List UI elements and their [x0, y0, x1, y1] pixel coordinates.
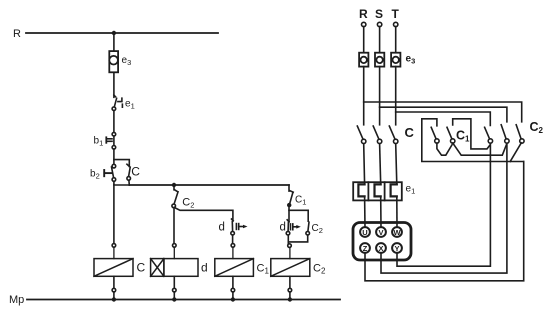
- svg-text:X: X: [378, 244, 383, 253]
- coil d (time relay): [151, 247, 208, 276]
- coil C: [94, 247, 146, 276]
- svg-text:C: C: [131, 165, 140, 179]
- contact C1 column D: [289, 185, 306, 207]
- wire: [113, 33, 115, 51]
- wire to parallel branch: [289, 205, 308, 222]
- contact C1 #2: [447, 119, 506, 155]
- svg-text:Mp: Mp: [9, 294, 24, 306]
- wire below coil C1: [231, 276, 235, 299]
- terminal above coil C: [112, 244, 116, 248]
- node junction long wire: [172, 183, 176, 187]
- svg-text:R: R: [13, 28, 21, 40]
- svg-text:U: U: [362, 228, 367, 237]
- coil C1: [215, 247, 270, 276]
- contact C2 column B: [172, 185, 195, 210]
- node on Mp rail: [231, 297, 235, 301]
- wire rejoin branch: [288, 235, 307, 242]
- node on Mp rail: [112, 297, 116, 301]
- wire loop Z to delta bus: [365, 162, 524, 281]
- motor terminal block: [353, 223, 411, 261]
- wire loop Y to C1 contact: [397, 143, 490, 266]
- contact C2 right branch: [306, 222, 323, 235]
- contactor C2 contact 1: [501, 125, 509, 143]
- svg-text:C: C: [405, 125, 415, 140]
- terminal above coil d: [173, 244, 177, 248]
- svg-text:d: d: [201, 261, 208, 275]
- wire: [113, 72, 115, 97]
- wire: [114, 181, 129, 185]
- overload relay e1 block: [353, 182, 415, 200]
- pushbutton b2: [90, 164, 116, 181]
- svg-text:b2: b2: [90, 169, 100, 181]
- svg-text:V: V: [378, 228, 383, 237]
- svg-text:C2: C2: [313, 263, 326, 276]
- svg-text:T: T: [392, 7, 400, 21]
- holding contact C of contactor C: [114, 160, 140, 185]
- rail R: [13, 28, 218, 40]
- contact C1 #1: [431, 127, 452, 155]
- svg-text:e3: e3: [406, 54, 416, 66]
- overload contact e1: [112, 95, 135, 111]
- contact C1 #3: [485, 127, 493, 143]
- svg-text:C1: C1: [456, 129, 470, 144]
- svg-text:b1: b1: [94, 136, 104, 148]
- node on R rail: [112, 31, 116, 35]
- timed contact d right: [280, 220, 301, 235]
- wires from supply: [364, 27, 396, 53]
- rail Mp: [9, 294, 340, 306]
- wires fuse to contacts: [364, 67, 396, 125]
- contactor C2 contact 2: [510, 120, 543, 162]
- svg-text:d: d: [219, 222, 225, 234]
- wire: [113, 111, 115, 133]
- wire: [113, 149, 115, 164]
- coil C2: [271, 247, 326, 276]
- wire long horizontal: [129, 184, 289, 186]
- node branch split: [287, 203, 291, 207]
- wire below coil C2: [288, 276, 292, 299]
- wire down to coil d: [173, 208, 175, 244]
- bus wire 2: [380, 107, 507, 122]
- svg-text:C2: C2: [312, 223, 323, 235]
- wires overload to motor: [365, 196, 397, 227]
- wire loop X to C2 contact: [381, 143, 507, 273]
- wire below coil d: [173, 276, 177, 299]
- svg-text:d: d: [280, 222, 286, 234]
- svg-text:C2: C2: [530, 120, 544, 135]
- svg-text:C: C: [137, 261, 146, 275]
- wire main down to coil C: [113, 185, 115, 244]
- svg-text:Z: Z: [363, 244, 368, 253]
- pushbutton b1: [94, 132, 116, 149]
- node on Mp rail: [172, 297, 176, 301]
- supply terminals: [362, 22, 398, 26]
- bus wire 1: [364, 102, 522, 122]
- svg-text:C2: C2: [182, 197, 194, 210]
- fuse e3: [109, 51, 131, 72]
- wire below coil C: [112, 276, 116, 299]
- svg-text:W: W: [393, 228, 401, 237]
- svg-text:e1: e1: [125, 99, 135, 111]
- timed contact d column C: [219, 219, 248, 235]
- wire below contact d: [232, 235, 234, 244]
- node on Mp rail: [288, 297, 292, 301]
- contactor C contacts: [357, 125, 414, 144]
- wire to timed contact d: [174, 208, 233, 222]
- star bridge frame wire: [422, 119, 524, 162]
- wires contacts to overload: [364, 144, 397, 185]
- bus wire 3: [396, 112, 491, 126]
- svg-text:e1: e1: [406, 184, 416, 196]
- svg-text:C1: C1: [295, 195, 306, 207]
- svg-text:Y: Y: [394, 244, 399, 253]
- svg-text:e3: e3: [122, 55, 132, 67]
- svg-text:S: S: [375, 7, 383, 21]
- terminal above coil C1: [231, 244, 235, 248]
- terminal above coil C2: [288, 244, 292, 248]
- svg-text:C1: C1: [257, 263, 270, 276]
- labels R S T: [359, 7, 400, 21]
- fuses e3 power: [359, 53, 415, 67]
- svg-text:R: R: [359, 7, 368, 21]
- wire down to coil C2: [287, 235, 289, 244]
